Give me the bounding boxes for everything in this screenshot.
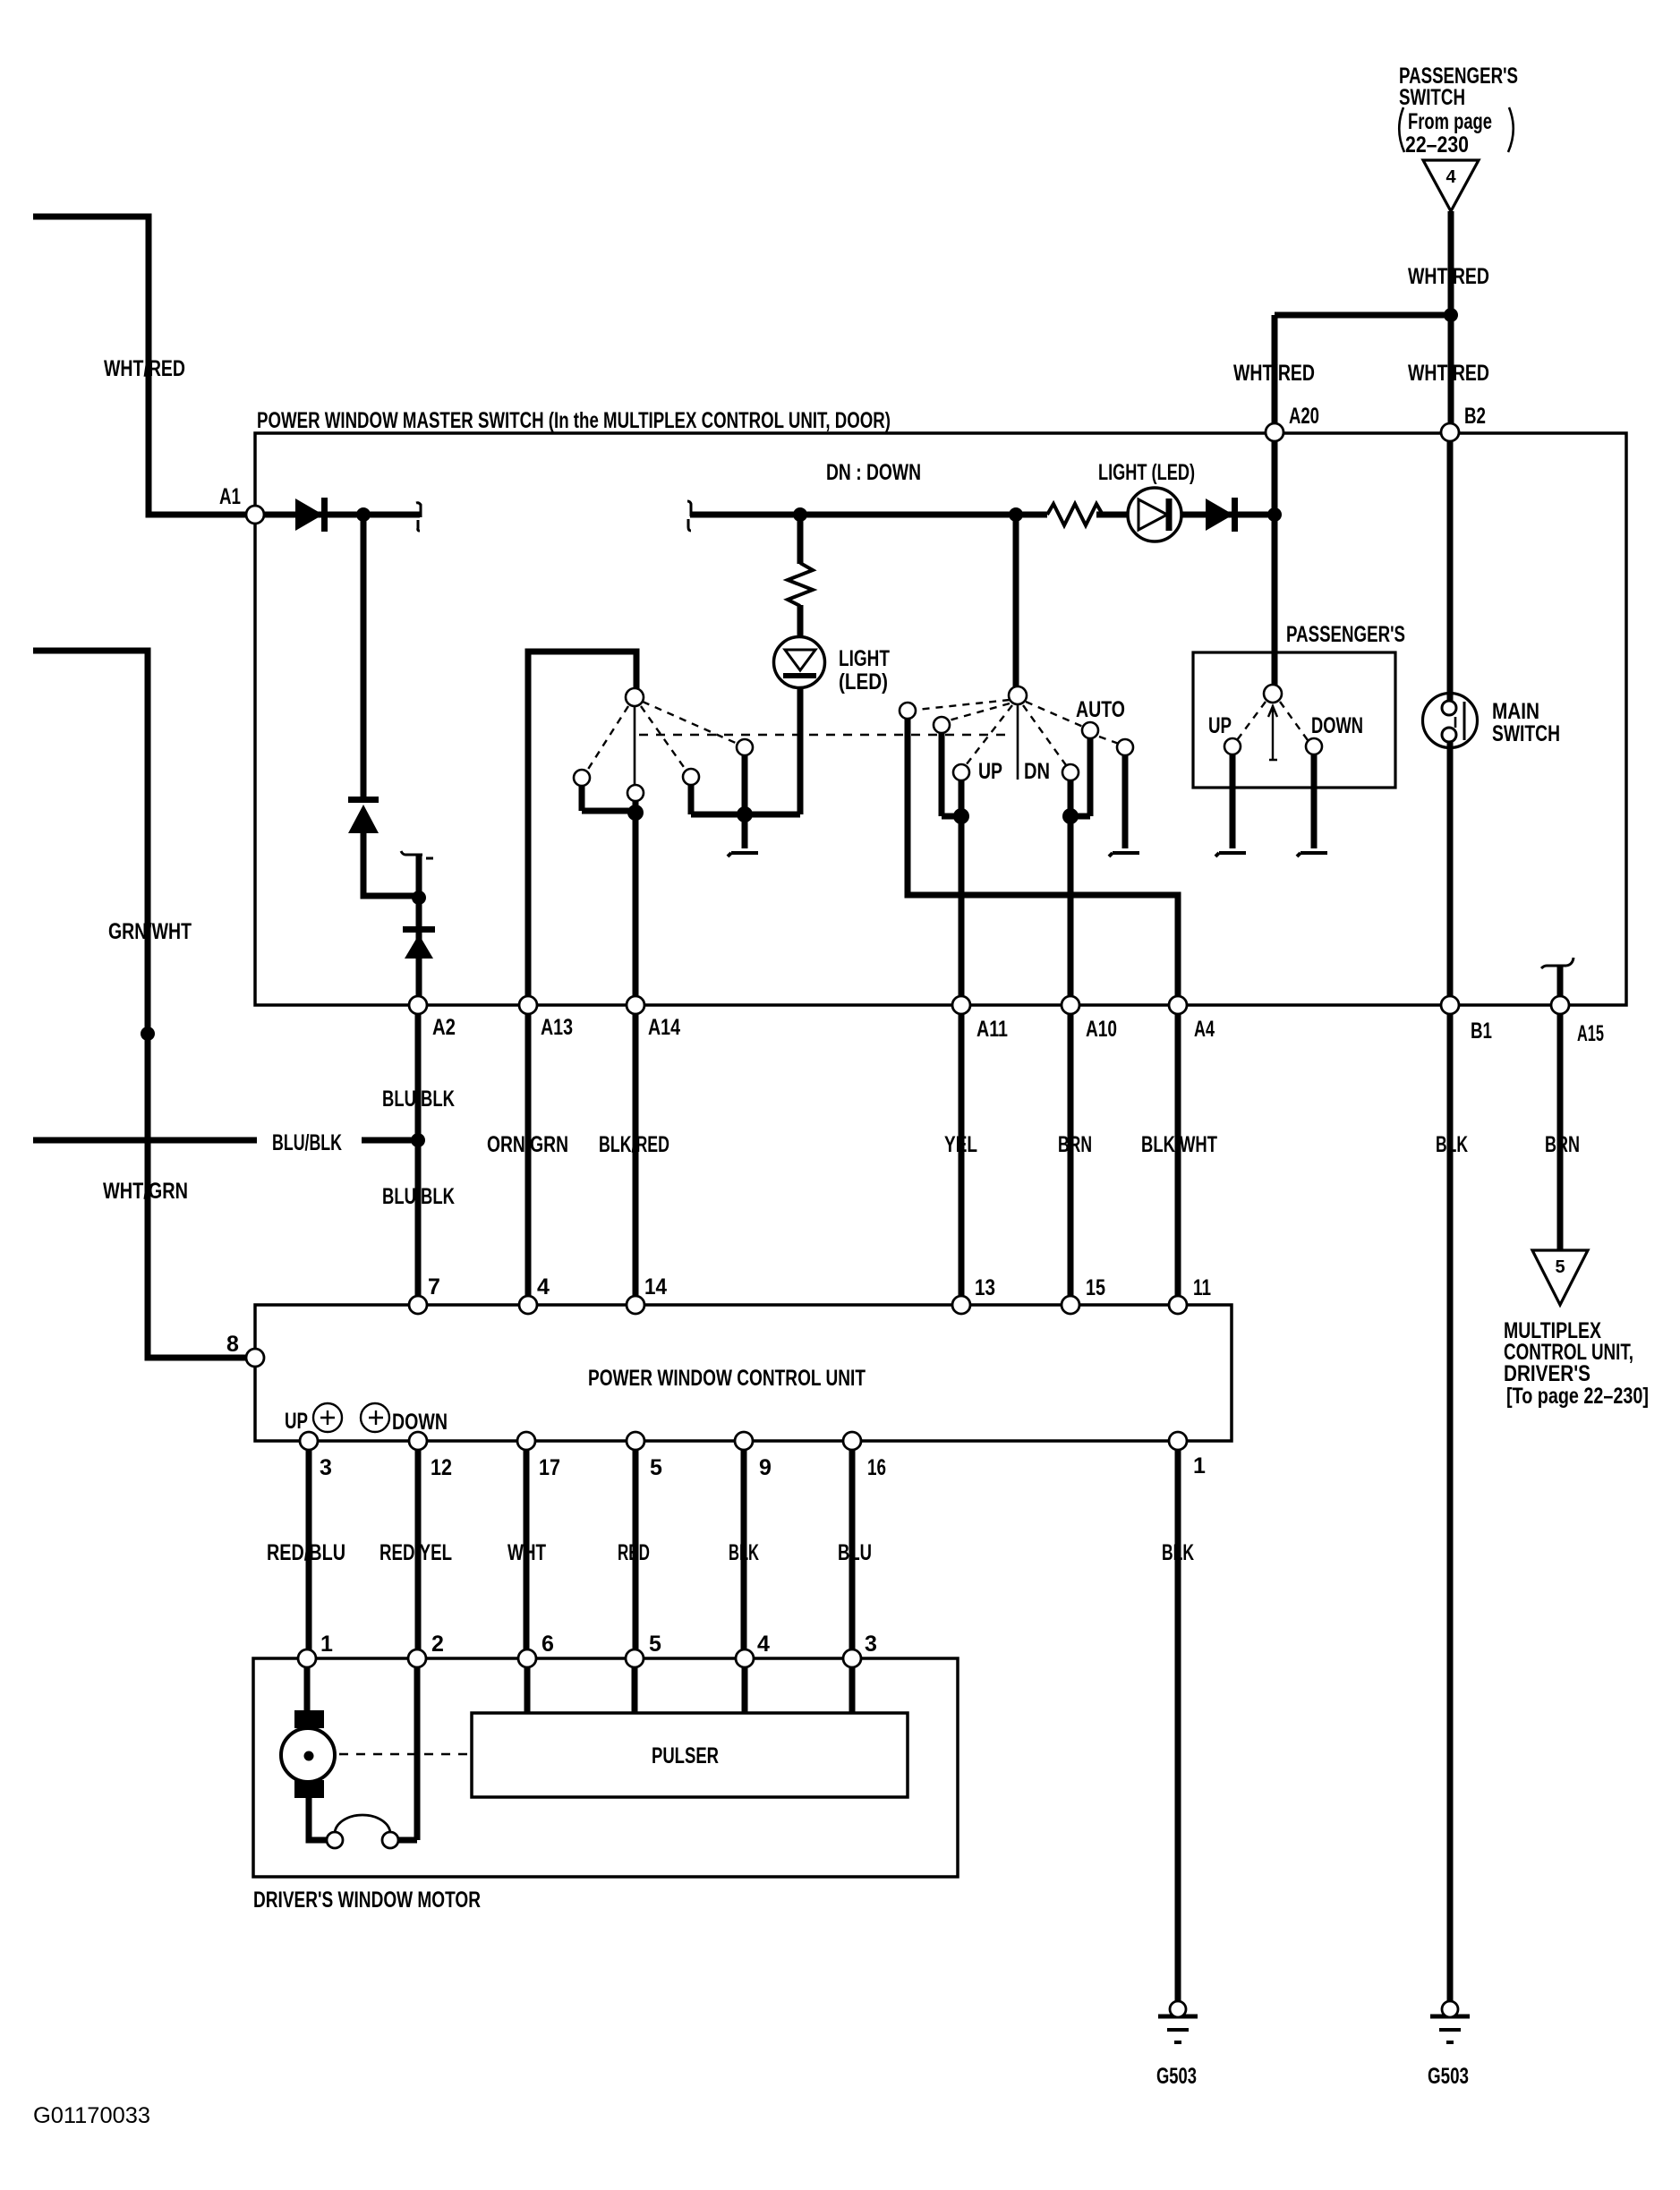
svg-text:9: 9 bbox=[759, 1455, 772, 1480]
junction on A1 row bbox=[356, 507, 371, 522]
terminal A4 bbox=[1169, 996, 1187, 1014]
wire A1 row to connector bbox=[253, 512, 420, 518]
svg-text:SWITCH: SWITCH bbox=[1399, 85, 1465, 110]
wire pulser feeds 6 5 4 3 bbox=[527, 1658, 852, 1713]
wire AUTO contact down to A10 junction bbox=[1070, 737, 1090, 816]
svg-text:MAIN: MAIN bbox=[1492, 699, 1539, 724]
wire from triangle 4 down bbox=[1448, 211, 1454, 315]
terminal pin 5 bbox=[627, 1432, 644, 1450]
wire A13 U-shape to common C1 bbox=[528, 652, 636, 1005]
junction top right WHT/RED split bbox=[1444, 308, 1458, 322]
terminal pin 14 bbox=[627, 1296, 644, 1314]
terminal motor 6 bbox=[518, 1649, 536, 1667]
label PASSENGER'S SWITCH from page bbox=[1399, 64, 1518, 158]
terminal A1 bbox=[246, 506, 264, 524]
junction DN row at resistor branch bbox=[793, 507, 807, 522]
svg-text:G503: G503 bbox=[1428, 2064, 1469, 2089]
svg-text:UP: UP bbox=[978, 759, 1002, 784]
wire open stub right of AUTO bbox=[1122, 755, 1129, 848]
LED L1 (LIGHT) bbox=[774, 637, 825, 688]
svg-text:4: 4 bbox=[1445, 167, 1456, 187]
svg-text:14: 14 bbox=[644, 1274, 667, 1300]
svg-text:WHT/RED: WHT/RED bbox=[1233, 361, 1315, 386]
wire contact far right of C1 down bbox=[742, 755, 748, 814]
svg-text:A1: A1 bbox=[219, 484, 241, 509]
svg-text:BLU/BLK: BLU/BLK bbox=[382, 1086, 455, 1112]
node S2 contact b bbox=[934, 717, 950, 733]
svg-text:PASSENGER'S: PASSENGER'S bbox=[1286, 622, 1405, 647]
svg-text:G503: G503 bbox=[1156, 2064, 1197, 2089]
terminal pin 1 bbox=[1169, 1432, 1187, 1450]
node S1 common bbox=[626, 688, 644, 706]
box DRIVER'S WINDOW MOTOR bbox=[253, 1658, 958, 1877]
wire right-switch contact to A4 routing bbox=[908, 718, 1178, 1005]
wire contact to A11 junction bbox=[942, 732, 961, 816]
ground G503 right bbox=[1430, 2016, 1470, 2042]
svg-text:AUTO: AUTO bbox=[1076, 697, 1125, 722]
wire A10 column from DN contact bbox=[1068, 780, 1074, 1005]
wire D2 to corner to junction under connector bbox=[363, 828, 419, 896]
svg-text:A4: A4 bbox=[1194, 1017, 1215, 1042]
terminal ground left bbox=[1170, 2001, 1186, 2017]
svg-text:5: 5 bbox=[649, 1632, 661, 1657]
svg-text:15: 15 bbox=[1086, 1275, 1105, 1300]
wire A11 column from UP contact bbox=[959, 780, 965, 1005]
svg-text:From page: From page bbox=[1408, 109, 1492, 134]
wire A10 to pin 15 (BRN) bbox=[1068, 1005, 1074, 1305]
svg-text:WHT/RED: WHT/RED bbox=[104, 356, 185, 381]
node S2 contact DN bbox=[1062, 764, 1079, 780]
terminal motor 2 bbox=[408, 1649, 426, 1667]
svg-text:DRIVER'S: DRIVER'S bbox=[1504, 1361, 1590, 1386]
wire A20 column down to passenger common C3 bbox=[1272, 432, 1278, 689]
node S2 common bbox=[1009, 686, 1027, 704]
svg-text:RED: RED bbox=[618, 1540, 650, 1565]
terminal motor 5 bbox=[626, 1649, 644, 1667]
wire A15 to triangle 5 (BRN) bbox=[1557, 1005, 1564, 1250]
resistor R1 vertical above LED L1 bbox=[788, 563, 813, 606]
wire GRN/WHT + WHT/GRN feed to pin 8 bbox=[33, 651, 255, 1358]
svg-text:12: 12 bbox=[431, 1455, 452, 1480]
wire A14 column from contact circle bbox=[633, 800, 639, 1005]
svg-text:BLK: BLK bbox=[729, 1540, 759, 1565]
svg-text:4: 4 bbox=[757, 1632, 770, 1657]
switch S3 passenger common pole with pointer bbox=[1268, 705, 1277, 760]
symbol plus circle 2 bbox=[361, 1403, 389, 1432]
terminal ground right bbox=[1442, 2001, 1458, 2017]
svg-text:WHT: WHT bbox=[507, 1540, 546, 1565]
svg-text:4: 4 bbox=[537, 1274, 550, 1300]
symbol plus circle 1 bbox=[313, 1403, 342, 1432]
node S1 centre contact bbox=[627, 785, 644, 801]
svg-text:11: 11 bbox=[1193, 1275, 1211, 1300]
svg-text:DRIVER'S WINDOW MOTOR: DRIVER'S WINDOW MOTOR bbox=[253, 1887, 481, 1913]
terminal A2 bbox=[409, 996, 427, 1014]
svg-text:WHT/RED: WHT/RED bbox=[1408, 264, 1489, 289]
node S2 contact UP bbox=[953, 764, 969, 780]
wire pin 5 to motor 5 (RED) bbox=[633, 1441, 639, 1658]
svg-text:6: 6 bbox=[542, 1632, 554, 1657]
box PASSENGER'S switch bbox=[1193, 652, 1395, 788]
node S1 far right contact bbox=[737, 739, 753, 755]
wire motor terminal 1 down to motor bbox=[304, 1658, 311, 1714]
motor-pulser dashed link bbox=[339, 1753, 470, 1756]
junction above diode D3 bbox=[412, 890, 426, 905]
junction on GRN/WHT line bbox=[141, 1027, 155, 1041]
terminal rings bbox=[246, 423, 1569, 2017]
connector triangle 4 (from page 22-230) bbox=[1423, 160, 1479, 211]
switch S3 dashed throws bbox=[1237, 702, 1308, 740]
wire A4 to pin 11 (BLK/WHT) bbox=[1175, 1005, 1181, 1305]
terminal B2 bbox=[1441, 423, 1459, 441]
node S2 contact a bbox=[900, 703, 916, 719]
svg-text:A11: A11 bbox=[976, 1017, 1008, 1042]
switch S2 dashed throws bbox=[917, 700, 1119, 765]
svg-text:1: 1 bbox=[1193, 1453, 1206, 1478]
node S3 common bbox=[1264, 685, 1282, 703]
diode D4 before A20 junction bbox=[1206, 498, 1238, 532]
wire pin 16 to motor 3 (BLU) bbox=[849, 1441, 856, 1658]
svg-text:DN: DN bbox=[1024, 759, 1050, 784]
node S3 contact UP bbox=[1224, 738, 1241, 754]
svg-text:3: 3 bbox=[320, 1455, 332, 1480]
terminal pin 4 bbox=[519, 1296, 537, 1314]
svg-text:5: 5 bbox=[650, 1455, 662, 1480]
svg-text:BRN: BRN bbox=[1058, 1132, 1092, 1157]
svg-text:BLK/WHT: BLK/WHT bbox=[1141, 1132, 1217, 1157]
wire contact right of C1 down to bus bbox=[688, 784, 695, 814]
diode D3 vertical (points up) above A2 bbox=[403, 926, 435, 959]
motor M (driver's window) bbox=[281, 1710, 335, 1798]
junction DN row at switch feed bbox=[1009, 507, 1023, 522]
node S2 contact f bbox=[1117, 739, 1133, 755]
svg-text:A10: A10 bbox=[1086, 1017, 1117, 1042]
wire pin 12 to motor 2 (RED/YEL) bbox=[415, 1441, 422, 1658]
svg-text:17: 17 bbox=[539, 1455, 560, 1480]
motor splice circle left bbox=[327, 1832, 343, 1848]
wire junction A1-row down to diode D2 bbox=[361, 515, 367, 799]
junction on A10 column bbox=[1062, 808, 1079, 824]
main switch SW (on B2 column) bbox=[1423, 694, 1478, 749]
wire A11 to pin 13 (YEL) bbox=[959, 1005, 965, 1305]
wire pin 17 to motor 6 (WHT) bbox=[524, 1441, 530, 1658]
junction BLU/BLK tap bbox=[411, 1133, 425, 1147]
wire junction down through diode D3 to A2 bbox=[416, 898, 422, 1005]
wire feed to driver switch common C2 bbox=[1013, 515, 1019, 691]
terminal pin 17 bbox=[517, 1432, 535, 1450]
wire A13 to pin 4 (ORN/GRN) bbox=[525, 1005, 532, 1305]
svg-text:22–230: 22–230 bbox=[1405, 132, 1469, 158]
terminal pin 11 bbox=[1169, 1296, 1187, 1314]
svg-text:BLK/RED: BLK/RED bbox=[599, 1132, 669, 1157]
diode D2 vertical (points up) bbox=[348, 797, 379, 833]
wire top-right branch to A20 bbox=[1275, 312, 1451, 319]
svg-text:B2: B2 bbox=[1464, 404, 1486, 429]
wire resistor R1 branch down to LED L1 bbox=[797, 515, 804, 564]
connector half (left) of DN:DOWN row bbox=[687, 501, 691, 531]
svg-text:8: 8 bbox=[226, 1332, 239, 1357]
ground G503 left bbox=[1158, 2016, 1198, 2042]
wire connector pair to motor terminal 2 bbox=[397, 1658, 417, 1840]
motor commutator arc connector bbox=[335, 1815, 390, 1834]
svg-text:A13: A13 bbox=[541, 1015, 573, 1040]
terminal pin 9 bbox=[735, 1432, 753, 1450]
wire open stub below bus bbox=[742, 814, 748, 848]
svg-text:PULSER: PULSER bbox=[652, 1743, 719, 1768]
terminal A11 bbox=[952, 996, 970, 1014]
svg-text:5: 5 bbox=[1555, 1257, 1565, 1277]
junction on A14 column bbox=[627, 805, 644, 821]
svg-text:[To page 22–230]: [To page 22–230] bbox=[1506, 1384, 1649, 1409]
svg-text:BRN: BRN bbox=[1545, 1132, 1580, 1157]
wire A15 stub with connector bbox=[1541, 966, 1566, 968]
terminal pin 15 bbox=[1062, 1296, 1079, 1314]
terminal A14 bbox=[627, 996, 644, 1014]
svg-text:B1: B1 bbox=[1471, 1018, 1492, 1044]
node S2 contact AUTO bbox=[1082, 722, 1098, 738]
wire B1 to ground (BLK) bbox=[1447, 1005, 1454, 2003]
svg-text:A20: A20 bbox=[1289, 404, 1319, 429]
svg-text:SWITCH: SWITCH bbox=[1492, 721, 1560, 746]
wire DN:DOWN row bbox=[690, 512, 1047, 518]
svg-text:POWER WINDOW CONTROL UNIT: POWER WINDOW CONTROL UNIT bbox=[588, 1366, 866, 1391]
terminal motor 4 bbox=[736, 1649, 754, 1667]
wire motor bottom to connector pair bbox=[309, 1796, 328, 1840]
connector triangle 5 (to page 22-230) bbox=[1532, 1250, 1588, 1305]
terminal motor 3 bbox=[843, 1649, 861, 1667]
wire passenger UP stub bbox=[1230, 754, 1236, 848]
svg-text:BLU/BLK: BLU/BLK bbox=[382, 1184, 455, 1209]
svg-text:BLK: BLK bbox=[1436, 1132, 1468, 1157]
svg-text:LIGHT (LED): LIGHT (LED) bbox=[1098, 460, 1195, 485]
big parens around From page 22-230 bbox=[1399, 107, 1514, 152]
node S3 contact DOWN bbox=[1306, 738, 1322, 754]
svg-text:DOWN: DOWN bbox=[392, 1410, 448, 1435]
terminal A10 bbox=[1062, 996, 1079, 1014]
wire WHT/RED feed to A1 bbox=[33, 217, 253, 515]
switch S1 common pole line bbox=[634, 705, 636, 787]
switch S1 mechanical link (dashed) bbox=[639, 734, 1011, 737]
svg-text:16: 16 bbox=[867, 1455, 886, 1480]
LED L2 (LIGHT LED) bbox=[1128, 488, 1181, 541]
box PULSER bbox=[472, 1713, 908, 1797]
svg-text:A14: A14 bbox=[648, 1015, 680, 1040]
svg-text:13: 13 bbox=[975, 1275, 995, 1300]
junction on A11 column bbox=[953, 808, 969, 824]
svg-text:G01170033: G01170033 bbox=[33, 2103, 150, 2128]
svg-text:YEL: YEL bbox=[944, 1132, 977, 1157]
terminal pin 8 bbox=[246, 1349, 264, 1367]
terminal A15 bbox=[1551, 996, 1569, 1014]
wire pin 9 to motor 4 (BLK) bbox=[741, 1441, 747, 1658]
diode D1 on A1 row bbox=[295, 498, 328, 532]
wire LED L1 to switch bus bbox=[797, 686, 804, 814]
resistor R2 horizontal on DN row bbox=[1047, 504, 1103, 525]
box POWER WINDOW CONTROL UNIT bbox=[255, 1305, 1232, 1441]
connector stub above junction (A2 branch) bbox=[401, 851, 422, 855]
svg-text:A15: A15 bbox=[1577, 1021, 1604, 1046]
wire A14 to pin 14 (BLK/RED) bbox=[633, 1005, 639, 1305]
svg-text:BLK: BLK bbox=[1162, 1540, 1194, 1565]
wire A2 column to pin 7 (BLU/BLK) bbox=[415, 1005, 422, 1305]
svg-text:BLU: BLU bbox=[838, 1540, 872, 1565]
terminal pin 12 bbox=[409, 1432, 427, 1450]
wire pin 3 to motor 1 (RED/BLU) bbox=[306, 1441, 312, 1658]
wire pin 1 to ground (BLK) bbox=[1175, 1441, 1181, 2003]
terminal A13 bbox=[519, 996, 537, 1014]
terminal pin 16 bbox=[843, 1432, 861, 1450]
switch S1 dashed throws bbox=[587, 702, 738, 771]
svg-text:BLU/BLK: BLU/BLK bbox=[272, 1130, 342, 1155]
svg-text:1: 1 bbox=[320, 1632, 333, 1657]
wire B2 column down to B1 bbox=[1447, 432, 1454, 1005]
svg-text:3: 3 bbox=[865, 1632, 877, 1657]
label MULTIPLEX CONTROL UNIT DRIVER'S bbox=[1504, 1318, 1649, 1409]
junction DN row at A20 column bbox=[1267, 507, 1282, 522]
svg-text:7: 7 bbox=[428, 1274, 440, 1300]
svg-text:POWER WINDOW MASTER SWITCH (In: POWER WINDOW MASTER SWITCH (In the MULTI… bbox=[257, 408, 891, 433]
node S1 right contact bbox=[683, 769, 699, 785]
terminal A20 bbox=[1266, 423, 1283, 441]
box POWER WINDOW MASTER SWITCH bbox=[255, 433, 1626, 1005]
svg-text:GRN/WHT: GRN/WHT bbox=[108, 919, 192, 944]
svg-text:DOWN: DOWN bbox=[1311, 713, 1363, 738]
connector half (right) after diode D1 bbox=[416, 503, 421, 531]
terminal pin 3 bbox=[300, 1432, 318, 1450]
terminal motor 1 bbox=[298, 1649, 316, 1667]
switch S2 common pole line bbox=[1017, 703, 1019, 780]
terminal pin 13 bbox=[952, 1296, 970, 1314]
wire BLU/BLK horizontal from left bbox=[33, 1138, 257, 1144]
svg-text:ORN/GRN: ORN/GRN bbox=[487, 1132, 568, 1157]
svg-text:2: 2 bbox=[431, 1632, 444, 1657]
wire passenger DOWN stub bbox=[1311, 754, 1318, 848]
svg-text:RED/YEL: RED/YEL bbox=[379, 1540, 452, 1565]
wire contact to A14 junction bbox=[582, 785, 635, 811]
junction on L1 bus bbox=[737, 806, 753, 822]
motor splice circle right bbox=[382, 1832, 398, 1848]
svg-text:(LED): (LED) bbox=[839, 669, 888, 694]
svg-text:UP: UP bbox=[1208, 713, 1232, 738]
svg-text:RED/BLU: RED/BLU bbox=[267, 1540, 345, 1565]
svg-text:LIGHT: LIGHT bbox=[839, 646, 890, 671]
svg-text:DN : DOWN: DN : DOWN bbox=[826, 460, 921, 485]
svg-text:WHT/RED: WHT/RED bbox=[1408, 361, 1489, 386]
terminal B1 bbox=[1441, 996, 1459, 1014]
switch contact rings bbox=[574, 685, 1322, 801]
terminal pin 7 bbox=[409, 1296, 427, 1314]
svg-text:WHT/GRN: WHT/GRN bbox=[103, 1179, 188, 1204]
svg-text:UP: UP bbox=[285, 1409, 308, 1434]
svg-text:A2: A2 bbox=[432, 1015, 456, 1040]
node S1 left contact bbox=[574, 770, 590, 786]
wire switch bus under L1 bbox=[691, 812, 800, 818]
